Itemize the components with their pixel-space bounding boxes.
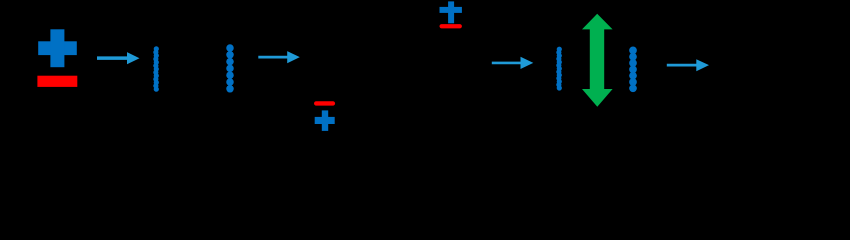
- arrow 1 (light blue right arrow): [97, 52, 140, 64]
- dot column 2 (blue beads): [629, 47, 637, 93]
- green double-headed vertical arrow: [582, 14, 613, 107]
- arrow 2 (light blue right arrow): [258, 51, 300, 63]
- small red minus (below arrow 2 group): [314, 101, 335, 105]
- membrane bar 1 (blue ragged vertical bar): [153, 46, 159, 91]
- large red minus bar (negative charge): [37, 76, 77, 87]
- dot column 1 (blue beads): [226, 44, 234, 92]
- arrow 4 (light blue right arrow): [667, 59, 709, 71]
- arrow 3 (light blue right arrow): [492, 57, 534, 69]
- small blue plus (top middle-right): [440, 1, 462, 23]
- small blue plus (below arrow 2 group): [315, 110, 335, 130]
- small red minus (top middle-right): [440, 24, 462, 28]
- large blue plus (positive charge): [38, 29, 77, 67]
- membrane bar 2 (blue ragged vertical bar): [556, 47, 562, 91]
